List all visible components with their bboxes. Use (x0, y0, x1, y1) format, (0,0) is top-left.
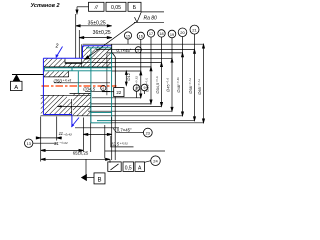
svg-text:0,7×45°: 0,7×45° (117, 128, 132, 133)
balloon c3 (147, 30, 154, 37)
svg-text:∅34,5⁺⁰·⁶: ∅34,5⁺⁰·⁶ (155, 76, 160, 94)
small dim vertical d12 (125, 71, 127, 86)
svg-text:65±0,25: 65±0,25 (73, 150, 89, 155)
hatch band C2 (73, 94, 91, 116)
dim vertical V2 d30 (150, 37, 152, 104)
auxiliary vertical ext x104.8 (104, 125, 106, 159)
dim vertical V7 d65 (202, 44, 204, 123)
datum A symbol (11, 75, 44, 91)
right face chamfer (112, 44, 116, 87)
svg-text://: // (94, 5, 98, 11)
svg-text:17: 17 (149, 32, 153, 36)
boss left auxiliary edge (80, 44, 82, 67)
teal machined surfaces (45, 48, 112, 123)
band C2 outline (72, 93, 91, 152)
dim vertical V5 d48 (181, 37, 183, 116)
boxed balloon 22 (102, 88, 124, 97)
chamfer balloon top (135, 47, 141, 53)
svg-text:0,7×45°: 0,7×45° (117, 48, 132, 53)
svg-text:0,5: 0,5 (125, 165, 132, 171)
svg-text:0,05: 0,05 (111, 5, 121, 11)
svg-text:24: 24 (153, 159, 158, 164)
bore d34,5 text shelf (85, 90, 110, 92)
svg-text:Установ 2: Установ 2 (30, 3, 59, 9)
svg-text:∅50⁺⁰·⁴³: ∅50⁺⁰·⁴³ (53, 78, 72, 83)
chamfer inner edge vertical (106, 54, 108, 96)
svg-text:36±0,25: 36±0,25 (93, 30, 111, 36)
svg-text:∅58⁻⁰·⁷⁴: ∅58⁻⁰·⁷⁴ (188, 78, 193, 94)
hatch band A with notch and boss (43, 46, 111, 67)
band B bottom edge (43, 76, 68, 78)
dim vertical V1 d22 (140, 39, 142, 97)
chamfer bottom shelf (117, 132, 140, 134)
svg-text:22,5⁺⁰·⁵²: 22,5⁺⁰·⁵² (110, 142, 129, 147)
chamfer balloon bottom (140, 128, 153, 137)
surface roughness Ra 80 (134, 12, 164, 22)
blue surface arrow lower (71, 118, 79, 128)
Ra80 leader arrow (85, 22, 136, 59)
svg-text:11₋₀,₄₃: 11₋₀,₄₃ (59, 131, 72, 136)
FCF1 leader (76, 7, 89, 14)
svg-text:15: 15 (126, 34, 130, 38)
dim vertical V6 d58 (193, 34, 195, 121)
svg-text:19: 19 (170, 33, 174, 37)
svg-text:А: А (14, 85, 18, 91)
feature control frame FCF2 bottom (108, 162, 145, 172)
datum B symbol (82, 159, 106, 184)
left balloon 13 (25, 139, 57, 147)
balloon c4 (158, 30, 165, 37)
svg-text:∅34,5: ∅34,5 (83, 86, 96, 91)
lower silhouette lines (41, 93, 91, 95)
svg-text:Ra 80: Ra 80 (144, 16, 158, 22)
FCF2 balloon 24 leader (145, 156, 161, 166)
balloon 8 mid (133, 85, 140, 98)
svg-text:8: 8 (136, 87, 138, 91)
hatch band B (43, 71, 68, 77)
bore d50 text shelf (54, 82, 110, 84)
svg-text:∅65⁻⁰·⁷⁴: ∅65⁻⁰·⁷⁴ (197, 79, 202, 95)
orange centerline (42, 85, 117, 87)
part outline blue (43, 46, 111, 127)
top connector extensions (44, 44, 204, 71)
band A bottom edge full (44, 66, 112, 68)
blue view arrow 2 top left (57, 47, 63, 57)
svg-text:23: 23 (146, 131, 150, 135)
balloon c6 (178, 28, 187, 37)
balloon c7 (190, 25, 199, 34)
hatch band C1 (41, 96, 72, 115)
svg-text:9: 9 (144, 86, 146, 90)
svg-text:5: 5 (137, 49, 139, 53)
svg-text:16: 16 (139, 35, 143, 39)
svg-text:∅48⁺⁰·³⁹: ∅48⁺⁰·³⁹ (176, 77, 181, 93)
svg-text:∅45⁻⁰·⁶: ∅45⁻⁰·⁶ (166, 77, 171, 92)
band B right edge (68, 71, 70, 77)
balloon c1 (124, 32, 131, 44)
svg-text:18: 18 (159, 32, 163, 36)
notch outline (65, 59, 83, 64)
auxiliary horizontal line y151 (105, 150, 165, 152)
dim vertical V4 d45 (171, 38, 173, 111)
svg-text:В: В (97, 178, 101, 184)
arrow on line y106.4 (57, 105, 62, 107)
svg-text:13: 13 (27, 142, 31, 146)
balloon c2 (137, 32, 144, 39)
svg-text:22: 22 (116, 90, 121, 95)
balloon 9 mid (141, 84, 148, 94)
svg-text:Б: Б (133, 5, 137, 11)
svg-text:2: 2 (55, 44, 59, 50)
rotated diameter texts (126, 73, 202, 95)
svg-text:20: 20 (180, 30, 185, 35)
bottom connector extensions (41, 98, 204, 128)
feature control frame FCF1 parallelism 0,05 B (89, 2, 142, 11)
dim vertical V3 d34.5 (160, 37, 162, 106)
balloon c5 (168, 30, 176, 38)
svg-text:21: 21 (192, 27, 197, 32)
